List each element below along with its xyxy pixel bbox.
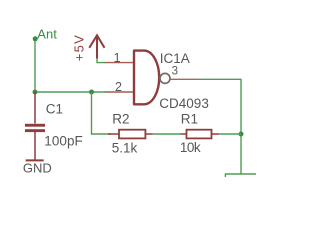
wire pin2 net horizontal: [35, 91, 106, 93]
capacitor C1 top lead: [34, 92, 36, 124]
svg-text:+5V: +5V: [71, 35, 86, 61]
svg-text:IC1A: IC1A: [160, 51, 190, 66]
svg-text:Ant: Ant: [37, 26, 57, 41]
inversion bubble: [160, 73, 170, 83]
resistor R1 lead right: [212, 133, 220, 135]
junction output/R1: [239, 132, 244, 137]
svg-text:R2: R2: [112, 112, 129, 127]
svg-text:CD4093: CD4093: [159, 96, 209, 111]
svg-text:10k: 10k: [180, 140, 201, 155]
supply +5V arrow: [89, 35, 104, 58]
resistor R1 lead left: [181, 133, 187, 135]
junction to R2 drop: [89, 90, 94, 95]
wire antenna vertical: [34, 39, 36, 92]
capacitor C1 bottom lead: [34, 132, 36, 160]
node Ant junction dot: [33, 36, 38, 41]
resistor R2 lead left: [108, 133, 119, 135]
wire drop to R2: [92, 92, 112, 134]
svg-text:1: 1: [114, 51, 121, 65]
resistor R2: [119, 130, 145, 139]
wire bottom to next gate: [225, 174, 256, 177]
NAND gate IC1A body (CD4093): [134, 51, 159, 105]
capacitor C1 plates: [25, 124, 45, 127]
resistor R1: [187, 130, 212, 139]
svg-text:GND: GND: [23, 161, 52, 176]
junction at capacitor: [33, 90, 38, 95]
svg-text:5.1k: 5.1k: [112, 141, 138, 156]
svg-text:C1: C1: [46, 102, 63, 117]
wire output net: [198, 79, 242, 174]
resistor R2 lead right: [145, 133, 152, 135]
wire supply to pin1: [97, 59, 106, 63]
wire R1 to output junction: [219, 133, 241, 135]
svg-text:R1: R1: [181, 112, 198, 127]
pin 1 stub: [106, 62, 135, 64]
pin 3 stub: [171, 78, 198, 80]
svg-text:2: 2: [115, 80, 122, 94]
wire R2 to R1: [153, 133, 181, 135]
pin 2 stub: [106, 91, 135, 93]
svg-text:100pF: 100pF: [44, 134, 83, 149]
ground symbol: [26, 159, 44, 161]
svg-text:3: 3: [172, 65, 178, 77]
